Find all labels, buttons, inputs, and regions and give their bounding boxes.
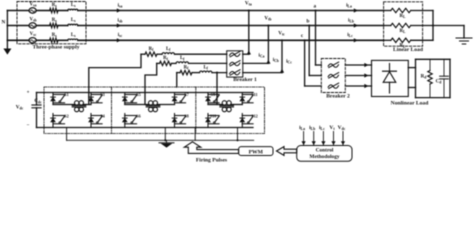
svg-text:S10: S10 [210,113,217,118]
rectifier box nonlinear load [372,60,430,106]
igbt switch S3 with antiparallel diode [89,92,105,104]
svg-text:N: N [2,19,6,25]
current arrow isb [117,18,123,27]
igbt switch S6 with antiparallel diode [123,113,141,127]
wire linear load star bus [432,11,464,41]
current arrow iLb [348,18,358,27]
svg-text:iLc: iLc [347,33,353,38]
svg-text:S9: S9 [211,92,215,97]
inductor Lf branch 3 [192,65,227,72]
current arrow iLa [346,3,358,12]
igbt switch S12 with antiparallel diode [240,113,258,127]
wire breaker 2 to rectifier row 1 [345,63,371,67]
svg-text:Lf: Lf [203,65,208,70]
svg-text:PWM: PWM [249,150,264,156]
three-phase supply dashed box [17,2,86,51]
block PWM [239,147,273,156]
svg-text:isa: isa [118,3,123,8]
svg-text:S2: S2 [64,113,68,118]
wire cell 3 midpoint right [231,104,242,106]
igbt switch S10 with antiparallel diode [206,113,219,127]
current arrow iCb [266,58,279,64]
svg-text:Rs: Rs [52,18,57,23]
breaker 1 pole 2 [230,61,241,67]
svg-text:isb: isb [118,18,123,23]
breaker 2 pole 2 [328,73,339,79]
svg-text:Vsb: Vsb [29,17,36,22]
resistor Rf branch 1 [141,47,157,56]
converter dash-dot enclosure [44,87,265,134]
svg-text:Linear Load: Linear Load [393,47,424,53]
svg-text:Rs: Rs [52,3,57,8]
node N neutral bus [2,11,8,49]
source Vsb [29,17,37,28]
igbt switch S8 with antiparallel diode [172,113,189,127]
wire cell 2 midpoint right [157,104,174,106]
wire cell 1 midpoint right [83,104,91,106]
wire node b to breaker 2 [309,26,321,76]
svg-text:Rs: Rs [52,33,57,38]
control input iLb [309,125,316,146]
svg-text:RL: RL [400,29,406,34]
svg-text:Vsc: Vsc [30,32,37,37]
block arrow control to PWM [277,147,297,156]
svg-text:iLb: iLb [348,18,354,23]
breaker 1 pole 3 [230,70,241,76]
igbt switch S7 with antiparallel diode [172,92,189,104]
svg-text:iCc: iCc [286,60,292,65]
resistor Rs phase b [50,18,58,28]
svg-text:Rf: Rf [163,56,168,61]
igbt switch S2 with antiparallel diode [51,113,69,127]
control input iLa [299,125,306,146]
current arrow iLc [347,33,358,42]
wire rectifier dc output loop [408,59,450,97]
wire iCa from breaker 1 [243,11,249,55]
wire branch 3 to converter cell [176,73,178,87]
label Vdc with polarity [16,91,30,129]
capacitor Cd [436,59,449,97]
wire branch 2 to converter cell [145,63,157,104]
current arrow iCc [280,60,292,73]
node Vtb tap [264,16,271,27]
wire node c to breaker 2 [305,40,322,86]
source Vsa [29,2,37,13]
inductor Lf branch 2 [172,56,227,63]
breaker 1 pole 1 [230,51,241,57]
svg-text:S12: S12 [251,113,258,118]
svg-text:S3: S3 [100,92,104,97]
control input iLc [319,125,325,146]
node c [301,33,306,41]
igbt switch S1 with antiparallel diode [51,92,69,104]
svg-text:RL: RL [400,14,406,19]
wire phase a supply row [7,10,383,12]
resistor Rf branch 3 [177,65,192,74]
node a [314,3,317,11]
transformer T3 [220,101,234,112]
svg-text:+: + [27,91,30,96]
svg-text:iLa: iLa [346,3,352,8]
svg-text:iCa: iCa [259,54,265,59]
igbt switch S11 with antiparallel diode [240,92,258,104]
svg-text:isc: isc [118,33,123,38]
svg-text:S11: S11 [251,92,257,97]
svg-text:Firing Pulses: Firing Pulses [196,157,228,163]
svg-text:b: b [307,18,310,24]
svg-text:Nonlinear Load: Nonlinear Load [391,101,430,107]
transformer T1 [72,101,86,112]
svg-text:Three-phase supply: Three-phase supply [33,45,80,51]
inductor Ls phase a [68,3,78,10]
source Vsc [29,32,37,43]
wire iCb from breaker 1 [243,26,269,64]
inductor Ls phase c [68,33,78,40]
wire phase c supply row [7,39,383,41]
inductor Lf branch 1 [157,47,227,54]
wire dc negative rail [37,127,254,129]
resistor RL phase c [384,38,433,49]
current arrow isa [117,3,123,12]
svg-text:Breaker 2: Breaker 2 [326,94,350,100]
wire converter neutral bus [67,128,254,142]
wire breaker 2 to rectifier row 2 [345,73,371,77]
diode rectifier symbol [383,64,397,94]
wire cell 2 midpoint left [125,104,149,106]
transformer T2 [146,101,160,112]
svg-text:S7: S7 [184,92,188,97]
breaker 1 box [227,51,257,83]
resistor Rd [421,59,433,97]
svg-text:S1: S1 [64,92,68,97]
inductor Ls phase b [68,18,78,25]
svg-text:Rd: Rd [421,75,428,80]
wire cell 1 midpoint left [53,104,75,106]
wire cell 3 output [216,72,218,105]
resistor Rf branch 2 [157,56,172,65]
svg-text:Ls: Ls [71,3,76,8]
igbt switch S9 with antiparallel diode [206,92,219,104]
wire node a to breaker 2 [316,11,322,66]
wire phase b supply row [7,25,383,27]
control input Vdc [338,125,346,146]
breaker 2 pole 3 [328,83,339,89]
breaker 2 dashed box [321,59,350,100]
svg-text:S8: S8 [184,113,188,118]
svg-text:Breaker 1: Breaker 1 [233,77,257,83]
igbt switch S4 with antiparallel diode [89,113,106,127]
svg-text:Rf: Rf [149,47,154,52]
svg-text:Rf: Rf [184,65,189,70]
svg-text:Cd: Cd [436,80,443,85]
igbt switch S5 with antiparallel diode [123,92,141,104]
resistor Rs phase a [50,3,58,13]
current arrow isc [117,33,123,42]
svg-text:Lf: Lf [180,56,185,61]
svg-text:S6: S6 [136,113,140,118]
current arrow iCa [247,50,265,58]
svg-text:Cdc: Cdc [34,99,42,104]
wire iCc from breaker 1 [243,40,282,72]
svg-text:Control: Control [316,148,334,154]
svg-text:S5: S5 [136,92,140,97]
svg-text:Vsa: Vsa [30,2,37,7]
ground converter [159,140,174,147]
wire breaker 2 to rectifier row 3 [345,84,371,88]
resistor Rs phase c [50,33,58,43]
capacitor Cdc dc link [32,93,42,128]
ground linear load [456,38,472,44]
svg-text:Lf: Lf [166,47,171,52]
breaker 2 pole 1 [328,62,339,68]
resistor RL phase a [384,8,433,19]
svg-text:Ls: Ls [71,18,76,23]
block control methodology [297,146,352,162]
svg-text:Methodology: Methodology [309,154,340,160]
resistor RL phase b [384,23,433,34]
svg-text:Ls: Ls [71,33,76,38]
node Vtc tap [278,30,285,41]
firing pulses block arrow [184,142,238,164]
wire cell 3 midpoint left [208,104,222,106]
svg-text:RL: RL [400,44,406,49]
linear load dashed box [384,2,424,53]
node Vta tap [245,1,252,12]
wire branch 1 to converter cell [89,54,141,104]
ground neutral arrow [3,49,11,55]
svg-text:−: − [27,123,30,128]
svg-text:iCb: iCb [273,58,279,63]
node b [307,18,311,26]
control input Vt [329,125,335,146]
svg-text:a: a [314,3,317,9]
wire dc positive rail [37,92,254,94]
